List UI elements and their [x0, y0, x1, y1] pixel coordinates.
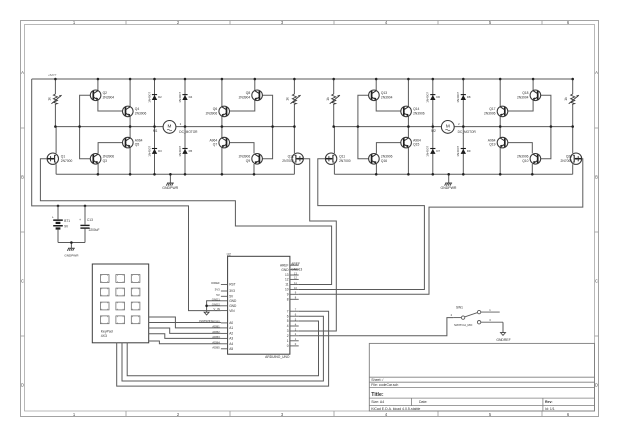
svg-text:U2: U2 — [227, 253, 231, 257]
svg-text:2N3904: 2N3904 — [381, 95, 393, 99]
resistor R4 1k — [293, 79, 295, 94]
svg-text:1N4007: 1N4007 — [147, 146, 151, 157]
ic U2 right pin names — [280, 263, 289, 348]
transistor Q14 2N3906 — [407, 79, 409, 107]
transistor Q2 2N3904 — [97, 79, 99, 91]
svg-text:2N3906: 2N3906 — [484, 112, 496, 116]
diode D9 1N4007 — [462, 127, 464, 175]
svg-text:GNDPWR: GNDPWR — [64, 253, 79, 257]
svg-text:C13: C13 — [87, 218, 93, 222]
motor M1 DC_MOTOR — [163, 121, 176, 134]
wire mid rail right (M1) — [176, 126, 295, 128]
svg-text:2N3906: 2N3906 — [381, 155, 393, 159]
wire mid rail left (M2) — [334, 126, 442, 128]
svg-text:+: + — [52, 215, 54, 219]
svg-text:D: D — [595, 383, 598, 388]
svg-text:M: M — [446, 124, 450, 129]
svg-text:5V: 5V — [216, 293, 220, 297]
svg-text:A3: A3 — [229, 337, 233, 341]
svg-text:2N3906: 2N3906 — [103, 155, 115, 159]
junction dots mid rail (M1) — [54, 125, 57, 128]
svg-text:3V3: 3V3 — [229, 289, 235, 293]
svg-text:GND1: GND1 — [212, 297, 220, 301]
svg-text:Q7: Q7 — [213, 143, 218, 147]
svg-text:C: C — [595, 279, 598, 284]
transistor Q18 2N3904 — [532, 79, 534, 91]
svg-text:A964: A964 — [488, 138, 496, 142]
ground GNDPWR (battery) — [67, 248, 75, 251]
wire keypad col3 to pin 5 — [127, 321, 318, 376]
svg-text:Q14: Q14 — [413, 107, 419, 111]
transistor Q9 2N3906 — [259, 127, 272, 159]
title block frame — [369, 343, 594, 411]
svg-text:4: 4 — [287, 324, 289, 328]
svg-text:B: B — [21, 175, 24, 180]
diode D5 1N4007 — [184, 127, 186, 175]
svg-text:Q16: Q16 — [381, 159, 387, 163]
svg-text:7: 7 — [287, 309, 289, 313]
wire keypad col2 to pin 6 — [122, 316, 323, 381]
switch SW1 SWITCH_MO — [453, 310, 503, 324]
svg-text:2200uF: 2200uF — [89, 228, 100, 232]
transistor Q1 2N7000 — [55, 127, 57, 154]
svg-text:1N4007: 1N4007 — [178, 146, 182, 157]
junction dots on +9V battery bus — [57, 205, 60, 208]
svg-text:GNDPWR: GNDPWR — [162, 186, 178, 190]
transistor Q20 2N7000 — [572, 127, 574, 154]
svg-text:1: 1 — [287, 339, 289, 343]
ic U2 right pin numbers — [294, 271, 297, 346]
svg-text:KiCad E.D.A. kicad 4.0.5-stab: KiCad E.D.A. kicad 4.0.5-stable — [371, 407, 420, 411]
svg-text:Q10: Q10 — [522, 159, 528, 163]
wire U2 GND pins tie — [207, 301, 221, 312]
svg-text:2N3906: 2N3906 — [239, 155, 251, 159]
wire keypad row2 to A0 — [149, 322, 221, 324]
svg-text:2N3904: 2N3904 — [103, 95, 115, 99]
junction dots bottom rail (M1) — [97, 173, 100, 176]
svg-text:1N4007: 1N4007 — [178, 92, 182, 103]
transistor Q10 2N3906 — [538, 127, 551, 159]
diode D2 1N4007 — [154, 79, 156, 127]
svg-text:Q5: Q5 — [135, 143, 140, 147]
wire keypad row4 to A3 — [149, 334, 221, 339]
svg-text:Date:: Date: — [419, 400, 427, 404]
svg-text:A964: A964 — [135, 138, 143, 142]
wire gate Q20 to pin 9 — [299, 159, 583, 295]
svg-text:2N3906: 2N3906 — [206, 112, 218, 116]
svg-text:AREF: AREF — [280, 263, 289, 267]
svg-text:Q2: Q2 — [103, 91, 108, 95]
resistor R1 1k — [54, 79, 56, 94]
motor M2 DC_MOTOR — [441, 121, 454, 134]
ic U2 left pin names — [229, 283, 237, 351]
svg-text:Rev:: Rev: — [545, 400, 553, 404]
svg-text:Id: 1/1: Id: 1/1 — [545, 407, 555, 411]
svg-text:+BATT: +BATT — [48, 73, 57, 77]
transistor Q17 2N3906 — [499, 79, 501, 107]
transistor Q19 A964 — [499, 127, 501, 138]
transistor Q6 2N3906 — [221, 79, 223, 107]
svg-text:Q15: Q15 — [413, 143, 419, 147]
battery BT1 wire — [57, 206, 59, 219]
svg-text:D5: D5 — [189, 149, 193, 153]
svg-text:11: 11 — [285, 283, 289, 287]
svg-text:Q9: Q9 — [246, 159, 251, 163]
net labels at U2 left pins — [212, 320, 220, 350]
battery BT1 — [53, 219, 63, 229]
svg-text:2: 2 — [287, 334, 289, 338]
wire switch throw 3 to ground — [502, 322, 504, 332]
svg-text:A964: A964 — [413, 138, 421, 142]
transistor Q7 A964 — [221, 127, 223, 138]
wire bottom rail (M2) — [334, 173, 572, 175]
svg-text:D8: D8 — [467, 95, 471, 99]
svg-text:A: A — [595, 70, 598, 75]
svg-text:M2: M2 — [431, 129, 436, 133]
svg-text:Q12: Q12 — [288, 154, 294, 158]
svg-text:Q19: Q19 — [489, 143, 495, 147]
wire ground stub (M1 bridge) — [169, 174, 171, 183]
svg-text:Title:: Title: — [371, 392, 384, 398]
svg-text:BT1: BT1 — [64, 219, 70, 223]
ground GNDREF (switch) — [501, 333, 506, 336]
junction dots mid rail (M2) — [332, 125, 335, 128]
svg-text:3: 3 — [287, 329, 289, 333]
ic U2 right pin stubs — [290, 265, 299, 346]
wire keypad row1 to A1 — [149, 317, 221, 328]
transistor Q8 2N3904 — [254, 79, 256, 91]
svg-text:2N7000: 2N7000 — [561, 159, 573, 163]
svg-text:2N3904: 2N3904 — [517, 95, 529, 99]
wire keypad row3 to A2 — [149, 328, 221, 333]
svg-text:C: C — [21, 279, 24, 284]
ground GNDPWR (M2 bridge) — [445, 183, 453, 186]
svg-text:8: 8 — [287, 298, 289, 302]
ground GNDREF (U2) — [204, 312, 209, 315]
svg-text:V_IN: V_IN — [213, 307, 219, 311]
svg-text:12: 12 — [285, 278, 289, 282]
diode D4 1N4007 — [184, 79, 186, 127]
keypad buttons — [100, 275, 140, 324]
svg-text:10: 10 — [285, 288, 289, 292]
svg-text:1N4007: 1N4007 — [426, 146, 430, 157]
ground GNDPWR (M1 bridge) — [166, 183, 174, 186]
svg-text:4X3: 4X3 — [101, 334, 107, 338]
resistor R8 1k — [572, 79, 574, 94]
svg-text:13: 13 — [285, 273, 289, 277]
svg-text:0: 0 — [287, 344, 289, 348]
svg-text:A964: A964 — [209, 138, 217, 142]
svg-text:AREF: AREF — [291, 262, 300, 266]
svg-text:GNDREF: GNDREF — [496, 338, 510, 342]
wire gate Q12 to pin 3 — [299, 159, 337, 331]
svg-text:KeyPad: KeyPad — [101, 329, 113, 333]
svg-text:IOREF: IOREF — [211, 281, 220, 285]
wire bottom rail (M1) — [56, 173, 294, 175]
svg-text:2N3906: 2N3906 — [517, 155, 529, 159]
svg-text:A4: A4 — [229, 342, 233, 346]
svg-text:A0: A0 — [229, 321, 233, 325]
svg-text:D6: D6 — [436, 95, 440, 99]
transistor Q15 A964 — [407, 127, 409, 138]
svg-text:1k: 1k — [564, 97, 568, 101]
diode D3 1N4007 — [154, 127, 156, 175]
svg-text:1k: 1k — [48, 97, 52, 101]
svg-text:9: 9 — [287, 293, 289, 297]
junction battery gnd — [70, 241, 73, 244]
svg-text:6: 6 — [287, 314, 289, 318]
wire +9V left drop to battery bus — [32, 79, 221, 311]
wire battery/capacitor ground bus — [58, 242, 85, 244]
svg-text:+: + — [79, 218, 81, 222]
svg-text:1N4007: 1N4007 — [456, 146, 460, 157]
net labels at U2 power pins — [211, 281, 220, 311]
transistor Q5 A964 — [129, 127, 131, 138]
svg-text:Q4: Q4 — [135, 107, 140, 111]
svg-text:Sheet: /: Sheet: / — [371, 378, 383, 382]
svg-text:A1: A1 — [229, 326, 233, 330]
svg-text:GND: GND — [281, 268, 289, 272]
svg-text:5: 5 — [287, 319, 289, 323]
wire ground stub (M2 bridge) — [448, 174, 450, 183]
wire gate Q11 to pin 10 — [299, 159, 425, 290]
svg-text:2N3906: 2N3906 — [413, 112, 425, 116]
capacitor C13 wire — [84, 206, 86, 225]
svg-text:RST: RST — [229, 283, 235, 287]
wire mid rail left (M1) — [55, 126, 163, 128]
svg-text:A5: A5 — [229, 347, 233, 351]
svg-text:Q6: Q6 — [213, 107, 218, 111]
svg-text:Q20: Q20 — [566, 154, 572, 158]
svg-text:GND: GND — [229, 299, 237, 303]
diode D6 1N4007 — [432, 79, 434, 127]
junction U2 gnd — [205, 305, 208, 308]
svg-text:Q11: Q11 — [339, 154, 345, 158]
svg-text:D9: D9 — [467, 149, 471, 153]
svg-text:ADB5: ADB5 — [212, 345, 220, 349]
svg-text:2N7000: 2N7000 — [282, 159, 294, 163]
svg-text:Q18: Q18 — [522, 91, 528, 95]
svg-text:D3: D3 — [158, 149, 162, 153]
diode D8 1N4007 — [462, 79, 464, 127]
junction dots top rail (M1) — [54, 78, 57, 81]
svg-text:2N3906: 2N3906 — [135, 112, 147, 116]
svg-text:Q3: Q3 — [103, 159, 108, 163]
title block text — [371, 378, 554, 411]
wire keypad row5 to A4 — [149, 341, 221, 344]
svg-text:Q17: Q17 — [489, 107, 495, 111]
svg-text:1k: 1k — [286, 97, 290, 101]
svg-text:1k: 1k — [326, 97, 330, 101]
svg-text:1N4007: 1N4007 — [147, 92, 151, 103]
svg-text:D4: D4 — [189, 95, 193, 99]
wire +9V top supply rail — [32, 78, 573, 80]
svg-text:2N3904: 2N3904 — [239, 95, 251, 99]
svg-text:VIN: VIN — [229, 309, 235, 313]
svg-text:D2: D2 — [158, 95, 162, 99]
svg-text:Q13: Q13 — [381, 91, 387, 95]
transistor Q3 2N3906 — [80, 127, 94, 159]
ic U2 left pin stubs — [221, 285, 228, 349]
svg-text:B: B — [595, 175, 598, 180]
transistor Q16 2N3906 — [358, 127, 372, 159]
ic U2 ARDUINO_UNO body — [228, 256, 290, 354]
svg-text:GNDPWR: GNDPWR — [441, 186, 457, 190]
svg-text:3V3: 3V3 — [215, 288, 221, 292]
wire mid rail right (M2) — [454, 126, 573, 128]
svg-text:A2: A2 — [229, 332, 233, 336]
svg-text:GND: GND — [229, 304, 237, 308]
keypad KEY1 body — [92, 264, 148, 343]
svg-text:A: A — [21, 70, 24, 75]
svg-text:2N7000: 2N7000 — [339, 159, 351, 163]
svg-text:File: codeCar.sch: File: codeCar.sch — [371, 383, 398, 387]
svg-text:1N4007: 1N4007 — [456, 92, 460, 103]
transistor Q12 2N7000 — [293, 127, 295, 154]
svg-text:GND13: GND13 — [291, 268, 302, 272]
svg-text:SWITCH_MO: SWITCH_MO — [454, 323, 473, 327]
svg-text:Size: A4: Size: A4 — [371, 400, 384, 404]
transistor Q4 2N3906 — [129, 79, 131, 107]
wire keypad col1 to pin 7 — [117, 311, 329, 386]
svg-text:SW1: SW1 — [456, 306, 463, 310]
svg-text:Q1: Q1 — [61, 154, 66, 158]
svg-text:ARDUINO_UNO: ARDUINO_UNO — [265, 355, 290, 359]
transistor Q13 2N3904 — [375, 79, 377, 91]
svg-text:DC_MOTOR: DC_MOTOR — [179, 130, 198, 134]
svg-text:D7: D7 — [436, 149, 440, 153]
svg-text:GND2: GND2 — [212, 302, 220, 306]
svg-text:DC_MOTOR: DC_MOTOR — [458, 130, 477, 134]
diode D7 1N4007 — [432, 127, 434, 175]
svg-text:M: M — [168, 124, 172, 129]
svg-text:M1: M1 — [153, 129, 158, 133]
resistor R5 1k — [333, 79, 335, 94]
svg-text:1N4007: 1N4007 — [426, 92, 430, 103]
svg-text:2N7000: 2N7000 — [61, 159, 73, 163]
wire switch common to pin 2 — [299, 318, 454, 336]
svg-text:D: D — [21, 383, 24, 388]
capacitor C13 — [80, 225, 89, 229]
wire gate Q1 to pin 11 — [40, 159, 331, 285]
svg-text:Q8: Q8 — [246, 91, 251, 95]
transistor Q11 2N7000 — [333, 127, 335, 154]
junction dots bottom rail (M2) — [375, 173, 378, 176]
junction dots top rail (M2) — [332, 78, 335, 81]
